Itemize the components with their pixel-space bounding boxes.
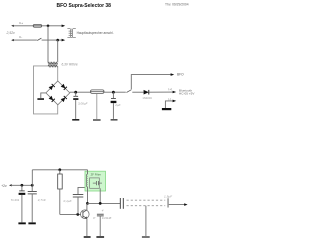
ground emitter xyxy=(84,236,91,238)
diode D-TL xyxy=(49,84,55,90)
speaker coil L1 xyxy=(67,29,75,38)
svg-text:HC-05 +5V: HC-05 +5V xyxy=(179,92,195,96)
filter core box xyxy=(90,178,100,188)
svg-text:b+: b+ xyxy=(20,21,24,25)
wire xyxy=(132,91,143,93)
capacitor 4,7nF xyxy=(31,185,33,191)
wire collector xyxy=(86,203,88,210)
svg-text:Hauptlautsprecher anschl.: Hauptlautsprecher anschl. xyxy=(77,31,114,35)
svg-text:3,06µF: 3,06µF xyxy=(78,101,88,105)
arrow (-) xyxy=(173,100,177,103)
wire output xyxy=(87,202,120,204)
svg-text:2µF: 2µF xyxy=(114,103,120,107)
wire secondary return xyxy=(34,66,58,114)
ground shield xyxy=(142,236,150,238)
svg-text:1N4148: 1N4148 xyxy=(102,216,112,220)
coupling capacitor xyxy=(119,198,121,209)
transistor Q1 xyxy=(81,210,90,219)
svg-text:BFO: BFO xyxy=(177,72,184,76)
svg-text:1N4004: 1N4004 xyxy=(142,96,152,100)
wire riser to BFO xyxy=(131,75,172,90)
svg-text:+2v: +2v xyxy=(1,184,7,188)
diode D-BR xyxy=(61,96,67,102)
wire bridge minus to ground xyxy=(41,93,46,98)
transformer T1 primary xyxy=(48,62,58,64)
svg-text:6,3V Röhre: 6,3V Röhre xyxy=(62,63,78,67)
capacitor on tank tap xyxy=(97,213,104,215)
ground xyxy=(111,119,118,121)
arrow to speaker + xyxy=(62,25,66,28)
resistor R1 xyxy=(59,170,61,174)
svg-text:2,52v: 2,52v xyxy=(6,31,16,35)
node B- junction xyxy=(56,39,59,42)
svg-text:b-: b- xyxy=(20,35,23,39)
ground xyxy=(18,222,25,224)
svg-text:(-): (-) xyxy=(168,97,171,101)
wire riser from B- xyxy=(57,40,59,62)
ground tank xyxy=(96,236,104,238)
filter cap xyxy=(93,182,97,184)
node c-4n7 xyxy=(31,184,34,187)
wire coil bottom down xyxy=(87,187,89,204)
arrow out xyxy=(184,203,187,206)
wire lower rail xyxy=(32,169,87,171)
node tl431 xyxy=(21,184,24,187)
terminal b- xyxy=(11,39,14,41)
svg-text:Thv. 09/29/2004: Thv. 09/29/2004 xyxy=(165,3,189,7)
arrow (+) xyxy=(173,91,177,94)
arrow BFO xyxy=(171,73,175,76)
wire emitter xyxy=(86,219,88,236)
ground xyxy=(28,222,35,224)
wire filter cap down xyxy=(99,188,101,203)
cable end plate xyxy=(167,198,168,207)
ground xyxy=(93,119,101,121)
svg-text:1,5µF: 1,5µF xyxy=(164,195,173,199)
switch S2 xyxy=(127,90,132,93)
wire riser to rail xyxy=(31,170,33,186)
ground xyxy=(37,98,44,100)
wire xyxy=(104,91,126,93)
wire rail into filter xyxy=(87,170,89,174)
wire DC rail xyxy=(70,91,91,93)
capacitor tantal TL431 xyxy=(21,185,23,191)
terminal b+ xyxy=(11,25,14,27)
capacitor C1 1000uF xyxy=(73,95,78,97)
svg-text:ZF Filter: ZF Filter xyxy=(91,172,101,176)
ground xyxy=(72,119,79,121)
svg-text:0,1µF: 0,1µF xyxy=(64,199,73,203)
node cap1 xyxy=(74,91,77,94)
svg-text:4,7nF: 4,7nF xyxy=(38,198,47,202)
wire xyxy=(42,39,64,41)
transformer T1 secondary xyxy=(48,65,58,67)
ground (-) xyxy=(162,108,171,110)
wire tap below fuse xyxy=(96,93,98,119)
svg-text:TL431: TL431 xyxy=(11,198,20,202)
fuse F1 xyxy=(33,25,42,28)
arrow to speaker - xyxy=(62,39,66,42)
wire to base xyxy=(60,213,81,215)
diode D5 1N4004 xyxy=(144,90,149,95)
wire xyxy=(42,25,64,27)
node resistor top xyxy=(58,168,61,171)
node tank tap xyxy=(99,202,102,205)
svg-text:P: P xyxy=(93,216,95,220)
wire out xyxy=(169,204,185,206)
wire (-) xyxy=(165,101,173,108)
switch S1 xyxy=(37,38,41,40)
svg-text:BFO Supra-Selector 38: BFO Supra-Selector 38 xyxy=(57,3,112,9)
wire secondary to bridge top xyxy=(57,66,59,81)
wire riser from B+ xyxy=(47,26,49,63)
ZF filter box xyxy=(85,171,106,191)
capacitor 0,1uF xyxy=(78,187,88,194)
svg-text:(+): (+) xyxy=(168,87,172,91)
node base xyxy=(76,213,79,216)
diode D-TR xyxy=(61,84,67,90)
filter coil xyxy=(86,174,87,187)
node B+ junction xyxy=(47,25,50,28)
node collector xyxy=(86,202,89,205)
shield ground tap xyxy=(145,206,147,236)
bridge rectifier BR1 xyxy=(46,81,70,105)
diode D-BL xyxy=(49,96,55,102)
fuse F2 xyxy=(91,90,105,94)
wire xyxy=(149,91,174,93)
shielded cable dashes xyxy=(127,199,166,201)
node cap2 xyxy=(112,91,115,94)
capacitor C2 2uF xyxy=(111,98,116,100)
